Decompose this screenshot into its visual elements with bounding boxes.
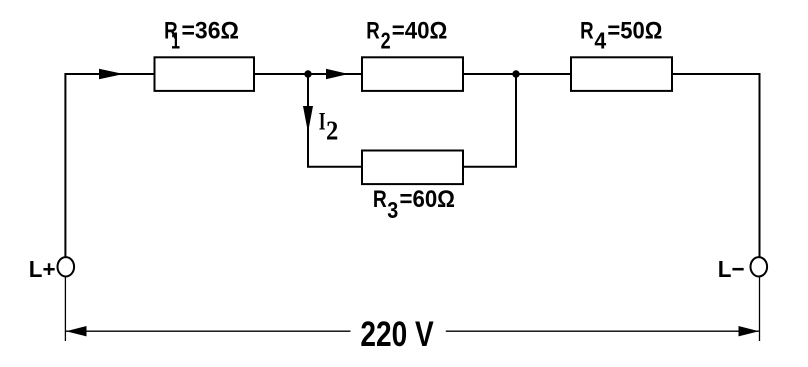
- current arrow I2 branch entry into R2: [326, 69, 349, 79]
- node junction 1: [304, 70, 311, 77]
- svg-text:2: 2: [326, 116, 338, 146]
- label I2: [319, 108, 339, 145]
- wire: left vertical from top-left corner down to L+ terminal: [65, 74, 154, 259]
- wire: R3 to node 2: [463, 74, 516, 167]
- svg-text:L+: L+: [29, 256, 56, 282]
- resistor R1: [155, 57, 255, 91]
- svg-text:220 V: 220 V: [360, 315, 434, 354]
- dimension arrow left: [66, 326, 87, 336]
- extension line below L+: [64, 277, 66, 342]
- current arrow I2 (downward): [303, 106, 313, 133]
- dimension line left segment: [66, 330, 351, 332]
- label R4=50Ω: [580, 17, 662, 53]
- label R2=40Ω: [366, 17, 447, 53]
- svg-text:=36Ω: =36Ω: [182, 17, 239, 44]
- node junction 2: [512, 70, 519, 77]
- svg-text:3: 3: [387, 197, 398, 223]
- svg-text:R: R: [373, 186, 387, 213]
- resistor R2: [362, 57, 463, 91]
- terminal L- circle: [751, 257, 768, 276]
- resistor R3: [362, 151, 463, 185]
- terminal L+ circle: [58, 257, 75, 276]
- svg-text:1: 1: [171, 28, 180, 54]
- svg-text:4: 4: [594, 28, 606, 54]
- svg-text:R: R: [366, 17, 380, 44]
- current arrow into R1: [99, 69, 124, 79]
- wire: branch from node 1 down to R3: [308, 74, 362, 167]
- wire: R4 to right vertical down to L- terminal: [672, 74, 760, 259]
- label R1=36Ω: [164, 17, 239, 53]
- wire: R1 to R2 through node: [255, 73, 363, 75]
- wire: R2 to R4 through node 2: [463, 73, 571, 75]
- dimension arrow right: [739, 326, 760, 336]
- svg-text:2: 2: [381, 28, 391, 54]
- svg-text:R: R: [580, 17, 594, 44]
- svg-text:L−: L−: [718, 256, 745, 282]
- svg-text:I: I: [319, 108, 326, 135]
- svg-text:=50Ω: =50Ω: [607, 17, 662, 44]
- label R3=60Ω: [373, 186, 455, 223]
- svg-text:=40Ω: =40Ω: [392, 17, 448, 44]
- extension line below L-: [759, 277, 761, 342]
- resistor R4: [571, 57, 672, 91]
- svg-text:=60Ω: =60Ω: [400, 186, 456, 213]
- dimension line right segment: [446, 330, 759, 332]
